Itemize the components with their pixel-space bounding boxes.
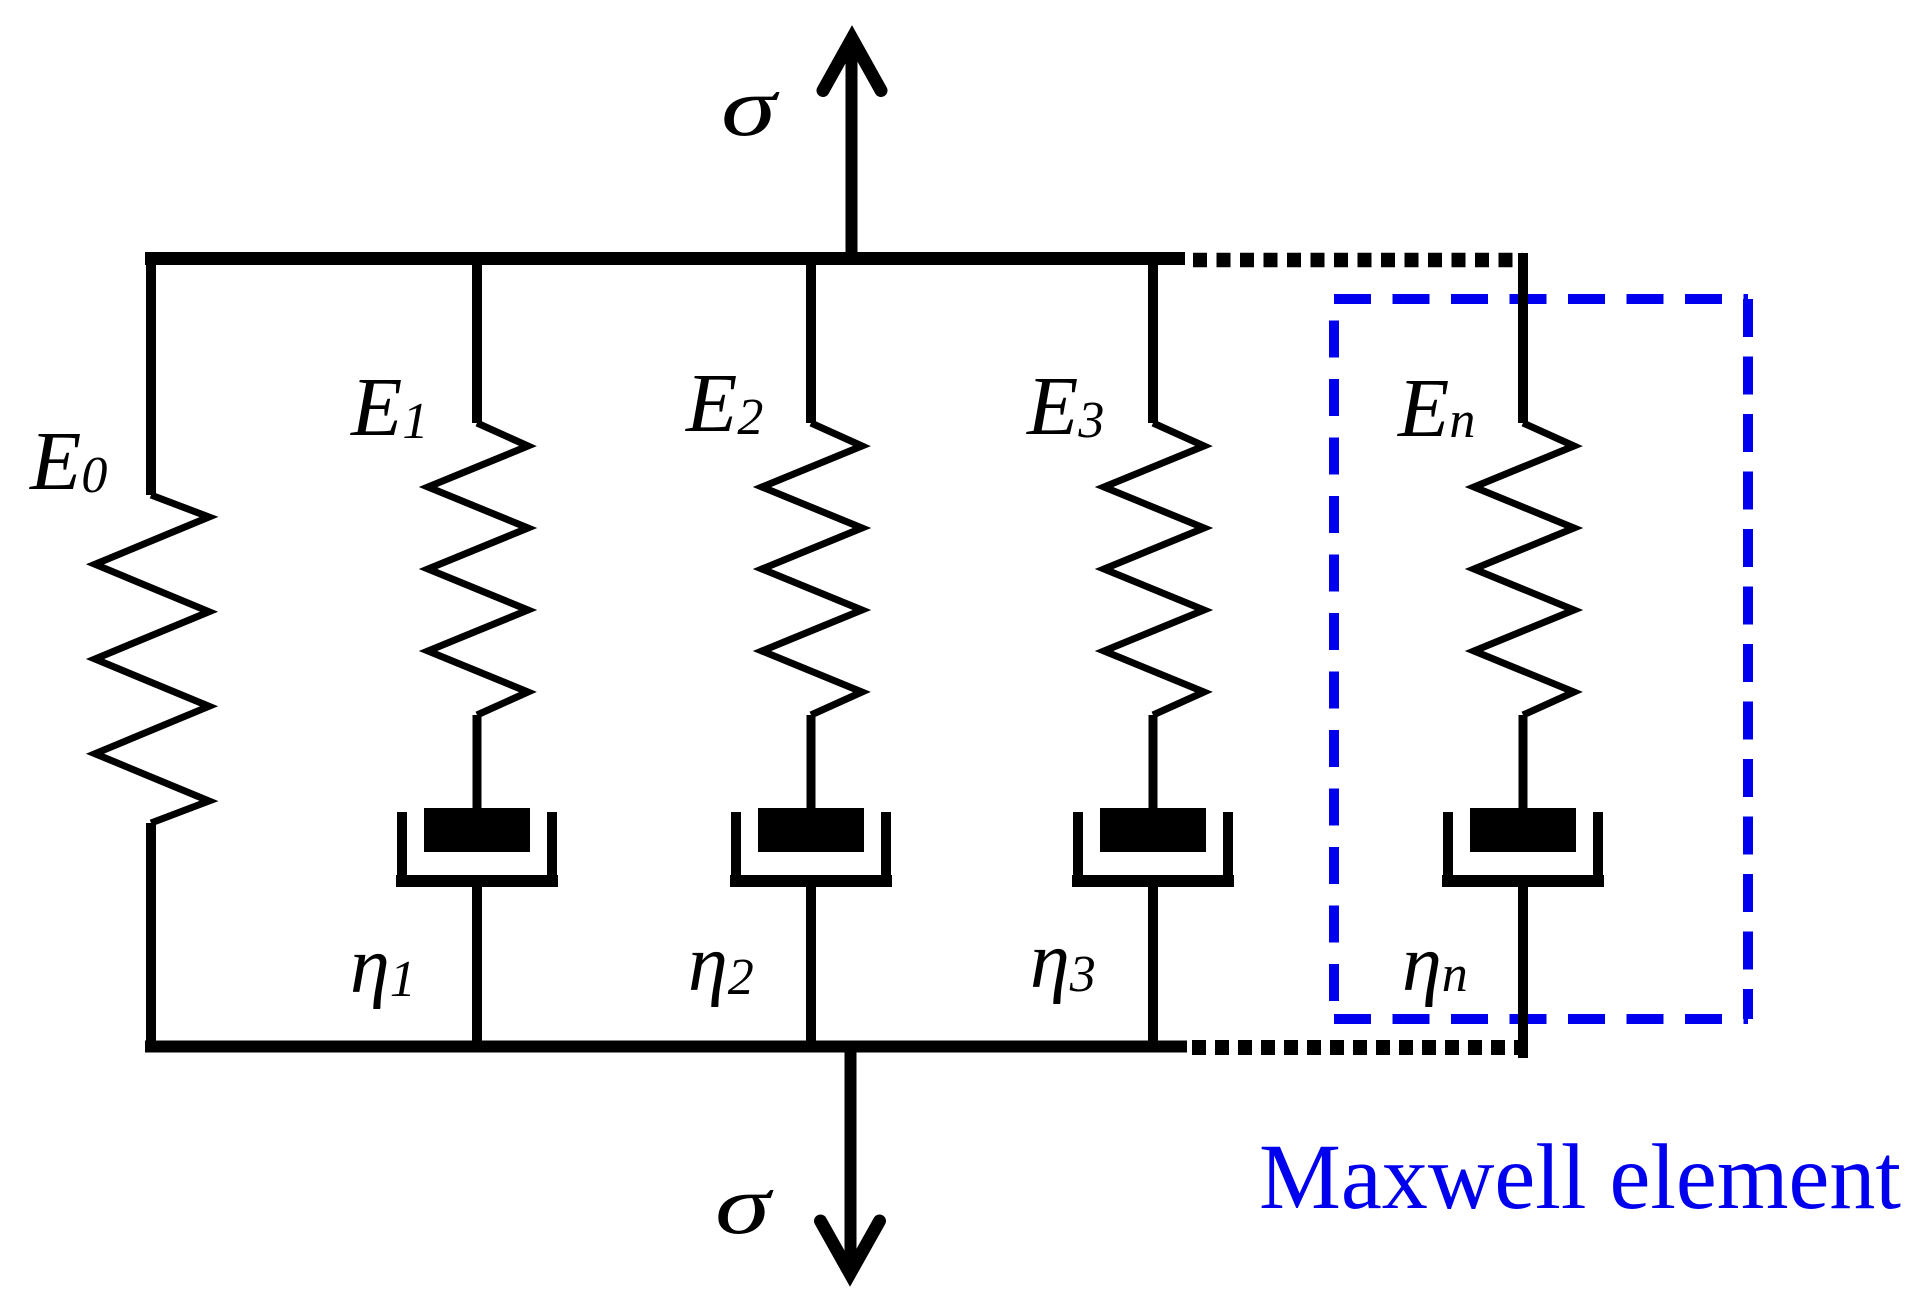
svg-text:σ: σ bbox=[721, 61, 781, 154]
svg-text:σ: σ bbox=[715, 1159, 775, 1252]
svg-text:Maxwell element: Maxwell element bbox=[1259, 1126, 1901, 1229]
